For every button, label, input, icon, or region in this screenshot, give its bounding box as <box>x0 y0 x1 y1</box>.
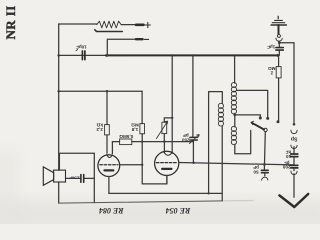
plug P3 <box>293 168 295 171</box>
node contact3 <box>277 120 280 123</box>
resistor R4 variable <box>162 122 167 133</box>
faint scan line <box>222 200 253 202</box>
antenna <box>277 16 279 19</box>
capacitor C4 antenna <box>278 43 280 56</box>
node bus-b <box>192 54 194 56</box>
resistor R3 0,5M <box>120 139 132 145</box>
bus line minus rail <box>106 54 278 56</box>
plug P2 Sp <box>291 130 297 134</box>
svg-text:Sp: Sp <box>291 135 298 141</box>
wire speaker top <box>59 153 95 170</box>
node bus-end <box>276 54 279 57</box>
svg-text:NR II: NR II <box>3 5 18 39</box>
node coil tap <box>234 114 237 117</box>
terminal plus <box>136 23 144 26</box>
wire grid T2 long <box>179 163 294 165</box>
wire thin to bus <box>59 54 106 56</box>
inductor L-ant lower <box>234 115 236 127</box>
svg-text:MΩ: MΩ <box>268 66 276 71</box>
inductor L-grid coil <box>218 103 223 126</box>
node varres-top <box>171 117 173 119</box>
speaker SP <box>43 167 53 185</box>
svg-text:nF: nF <box>286 150 292 155</box>
wire anode rail L1 <box>109 192 222 194</box>
node Sp top <box>293 123 296 126</box>
svg-text:kΩ: kΩ <box>96 122 103 127</box>
svg-text:0,5MΩ: 0,5MΩ <box>119 134 133 139</box>
switch lever <box>252 123 264 130</box>
wire filament row y91 <box>59 90 142 92</box>
capacitor C3 50pF <box>263 165 265 171</box>
node row91-left <box>57 90 60 93</box>
capacitor C2 250pF variable <box>192 55 195 162</box>
wire filament drop right tube <box>171 55 173 153</box>
node bus-c <box>233 54 235 56</box>
svg-text:pF: pF <box>284 160 290 165</box>
wire anode T1 down <box>108 177 110 194</box>
rheostat slider bar <box>95 30 123 32</box>
wire minus lead <box>107 39 136 55</box>
node bus-left <box>57 54 60 57</box>
wire anode T2 down <box>166 176 168 184</box>
inductor L-ant upper <box>234 55 236 83</box>
wire antenna branch right <box>279 43 294 125</box>
wire coil frame vertical <box>209 92 223 194</box>
wire coil upper tap to contact2 <box>237 90 268 117</box>
svg-text:MΩ: MΩ <box>131 123 139 128</box>
resistor R2 1,8M <box>142 91 167 184</box>
node contact1 <box>259 117 262 120</box>
node contact2 <box>266 117 269 120</box>
terminal minus <box>136 38 143 40</box>
wire lever down <box>264 132 267 164</box>
wire tap to contact1 <box>235 115 260 117</box>
capacitor C5 10nF <box>291 154 298 157</box>
wire coil bottom to lever leg <box>235 130 251 153</box>
wire grid T1 <box>120 164 143 166</box>
tube T2 RE054 <box>155 151 179 175</box>
svg-text:pF: pF <box>253 165 259 170</box>
wire bottom rail L0 <box>59 201 223 203</box>
plug P1 antenna <box>277 34 280 37</box>
node row141-b <box>163 140 165 142</box>
node row91-mid <box>106 90 109 93</box>
resistor rheostat zigzag <box>97 21 121 28</box>
node grid-cap <box>192 162 194 164</box>
svg-text:1µF: 1µF <box>267 44 275 49</box>
wire left vertical <box>58 24 60 203</box>
capacitor C6 200pF <box>291 165 298 168</box>
svg-text:1,5nF: 1,5nF <box>69 175 80 180</box>
wire coupling row y141 <box>112 142 193 154</box>
capacitor C1 10uF <box>82 51 85 60</box>
svg-text:RE 084: RE 084 <box>99 206 125 215</box>
node grid T1 <box>141 164 143 166</box>
resistor R1 2,2k <box>106 91 108 153</box>
earth arrow <box>279 194 308 207</box>
svg-text:pF: pF <box>183 133 189 138</box>
wire speaker right vertical <box>93 153 95 202</box>
capacitor C7 1,5nF <box>66 177 95 179</box>
wire top plus lead <box>59 23 136 26</box>
node bus-minus <box>106 54 109 57</box>
svg-text:RE 054: RE 054 <box>166 206 192 215</box>
wire grid coil bottom <box>221 126 223 201</box>
node antenna <box>278 41 281 44</box>
resistor R5 2M <box>276 67 281 78</box>
tube T1 RE084 <box>98 155 120 177</box>
node lever-grid <box>263 163 266 166</box>
node row141-a <box>141 141 143 143</box>
svg-text:10µF: 10µF <box>76 45 87 50</box>
node bus-a <box>171 54 173 56</box>
node L1-mid <box>208 192 210 194</box>
